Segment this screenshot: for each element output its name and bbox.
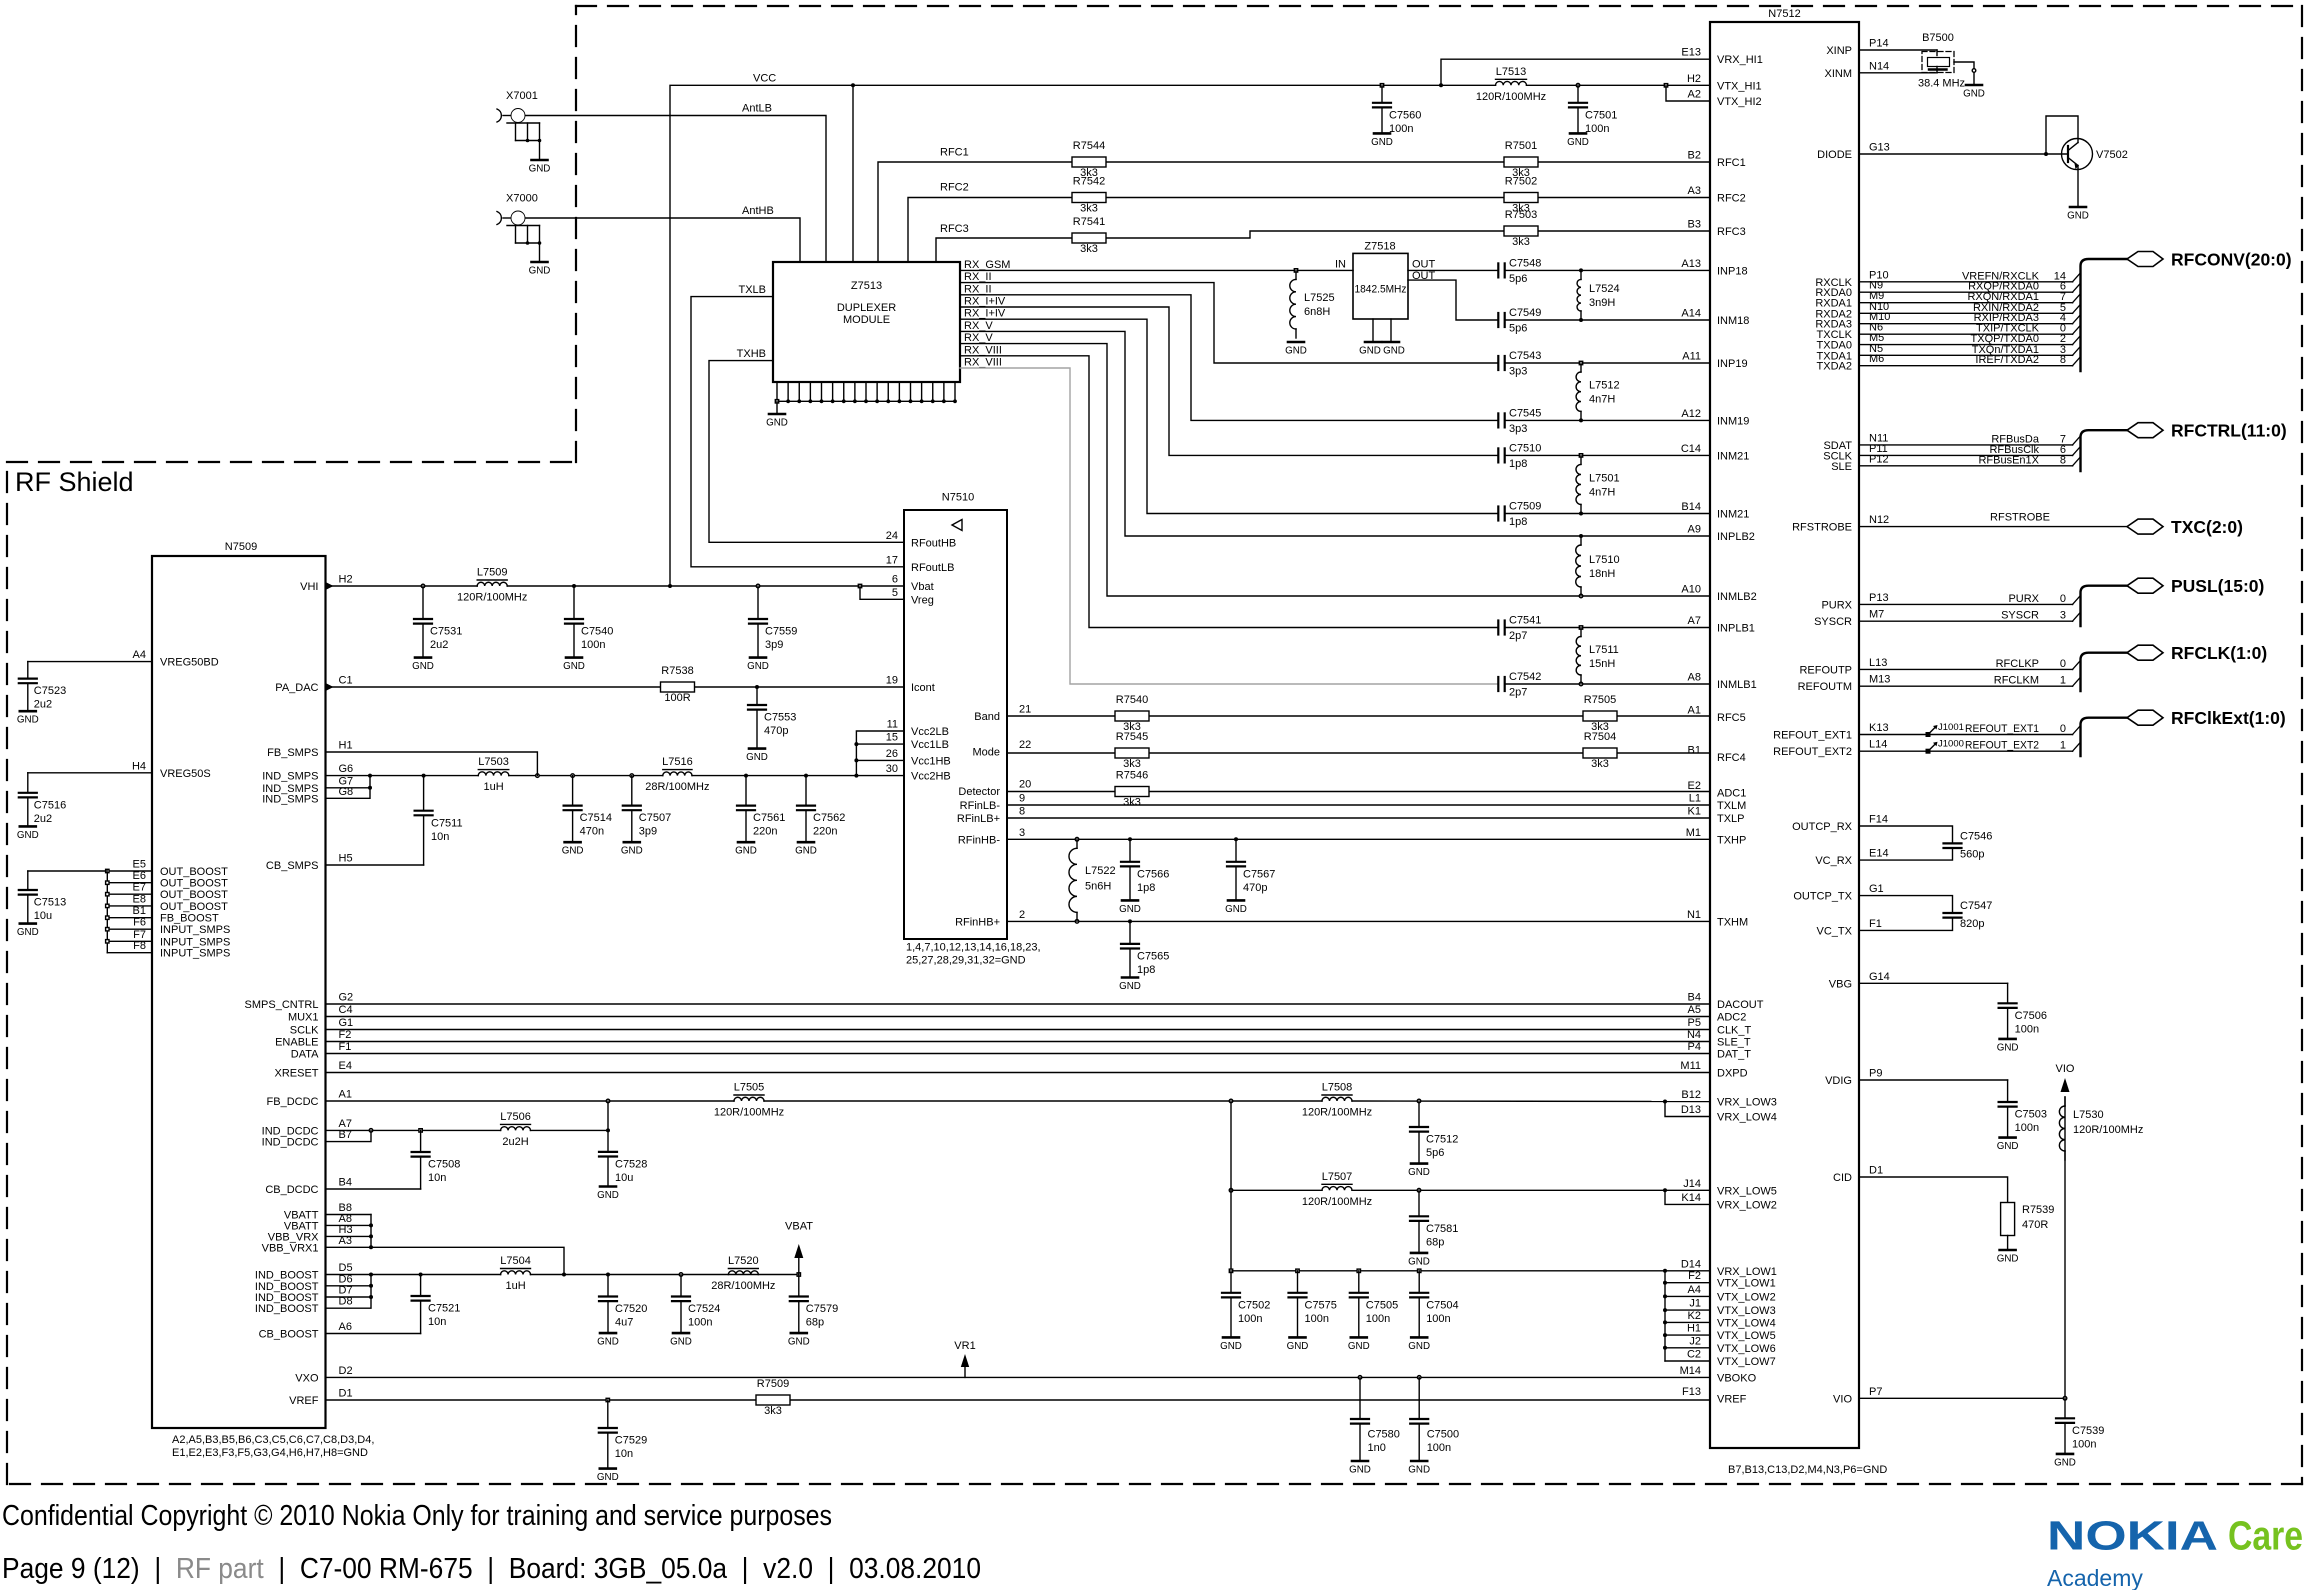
svg-text:L7504: L7504 <box>500 1255 531 1267</box>
wire DATA DAT_T <box>326 1053 1711 1055</box>
svg-text:RX_VIII: RX_VIII <box>964 344 1002 356</box>
wire SCLK CLK_T <box>326 1029 1711 1031</box>
capacitor C7549 <box>1498 307 1710 335</box>
svg-text:1p8: 1p8 <box>1137 964 1155 976</box>
svg-text:R7539: R7539 <box>2022 1204 2054 1216</box>
svg-text:RFC1: RFC1 <box>1717 157 1746 169</box>
wire RX_VIII b grey <box>960 368 1498 684</box>
svg-text:C7543: C7543 <box>1509 350 1541 362</box>
svg-text:GND: GND <box>1225 904 1247 915</box>
svg-text:GND: GND <box>1567 137 1589 148</box>
svg-text:A3: A3 <box>1688 185 1701 197</box>
svg-text:J1000: J1000 <box>1938 739 1964 750</box>
svg-text:120R/100MHz: 120R/100MHz <box>457 592 527 604</box>
svg-text:E2: E2 <box>1688 780 1701 792</box>
svg-text:3k3: 3k3 <box>1512 236 1530 248</box>
wire Band <box>1007 715 1710 717</box>
svg-text:VREG50BD: VREG50BD <box>160 657 219 669</box>
svg-text:A8: A8 <box>1688 672 1701 684</box>
IC N7509 <box>152 541 326 1428</box>
svg-text:24: 24 <box>886 530 898 542</box>
capacitor C7502 <box>1220 1271 1270 1352</box>
wire VRX_LOW2 bracket <box>1665 1190 1710 1204</box>
svg-text:INPLB1: INPLB1 <box>1717 623 1755 635</box>
svg-text:VBG: VBG <box>1829 978 1852 990</box>
wire IND_DCDC B7 <box>326 1130 372 1141</box>
svg-text:RFCONV(20:0): RFCONV(20:0) <box>2171 250 2292 270</box>
svg-text:C7559: C7559 <box>765 626 797 638</box>
resistor R7504 <box>1583 731 1617 770</box>
svg-text:GND: GND <box>1408 1465 1430 1476</box>
resistor R7501 <box>1504 140 1538 179</box>
svg-text:RFC2: RFC2 <box>1717 193 1746 205</box>
svg-text:D14: D14 <box>1681 1258 1701 1270</box>
svg-text:100n: 100n <box>2015 1023 2039 1035</box>
ground for L7525 <box>1285 342 1307 357</box>
capacitor C7528 <box>597 1130 647 1201</box>
svg-text:1p8: 1p8 <box>1509 516 1527 528</box>
svg-text:GND: GND <box>795 846 817 857</box>
capacitor C7579 <box>788 1275 838 1348</box>
svg-text:H1: H1 <box>339 740 353 752</box>
svg-text:1uH: 1uH <box>483 781 503 793</box>
svg-text:10n: 10n <box>428 1316 446 1328</box>
svg-text:RFClkExt(1:0): RFClkExt(1:0) <box>2171 708 2286 728</box>
svg-text:K1: K1 <box>1688 806 1701 818</box>
svg-text:25,27,28,29,31,32=GND: 25,27,28,29,31,32=GND <box>906 955 1026 967</box>
svg-text:A2,A5,B3,B5,B6,C3,C5,C6,C7,C8,: A2,A5,B3,B5,B6,C3,C5,C6,C7,C8,D3,D4, <box>172 1434 374 1446</box>
svg-text:VIO: VIO <box>1833 1393 1852 1405</box>
svg-text:Detector: Detector <box>958 786 1000 798</box>
svg-text:VBOKO: VBOKO <box>1717 1372 1757 1384</box>
capacitor C7514 <box>562 776 612 857</box>
svg-text:100n: 100n <box>2072 1438 2096 1450</box>
svg-text:TXLB: TXLB <box>738 284 766 296</box>
svg-text:AntLB: AntLB <box>742 102 772 114</box>
IC N7510 <box>904 492 1007 940</box>
capacitor C7509 <box>1498 501 1710 529</box>
svg-text:REFOUTM: REFOUTM <box>1798 681 1852 693</box>
svg-text:15: 15 <box>886 732 898 744</box>
svg-text:E6: E6 <box>133 870 146 882</box>
svg-text:TXC(2:0): TXC(2:0) <box>2171 517 2243 537</box>
svg-text:VRX_LOW1: VRX_LOW1 <box>1717 1266 1777 1278</box>
svg-text:INP18: INP18 <box>1717 265 1748 277</box>
svg-text:470R: 470R <box>2022 1219 2048 1231</box>
svg-text:IND_DCDC: IND_DCDC <box>262 1125 319 1137</box>
svg-text:100n: 100n <box>1426 1313 1450 1325</box>
inductor L7522 <box>1069 839 1116 921</box>
svg-text:MUX1: MUX1 <box>288 1012 319 1024</box>
svg-text:VBB_VRX1: VBB_VRX1 <box>262 1242 319 1254</box>
svg-text:C7567: C7567 <box>1243 868 1275 880</box>
svg-text:C7500: C7500 <box>1427 1429 1459 1441</box>
capacitor C7559 <box>747 586 797 672</box>
svg-text:RX_II: RX_II <box>964 271 992 283</box>
duplexer RX pin labels <box>964 259 1010 369</box>
svg-text:REFOUT_EXT2: REFOUT_EXT2 <box>1965 740 2039 752</box>
svg-text:GND: GND <box>670 1337 692 1348</box>
ground for B7500 <box>1963 85 1985 100</box>
svg-text:0: 0 <box>2060 593 2066 605</box>
connector X7001 <box>497 90 541 160</box>
svg-text:IND_BOOST: IND_BOOST <box>255 1303 319 1315</box>
svg-text:C7506: C7506 <box>2015 1010 2047 1022</box>
svg-text:GND: GND <box>17 830 39 841</box>
resistor R7541 <box>1072 216 1106 255</box>
wire VHI Vbat rail <box>326 584 905 588</box>
svg-text:1p8: 1p8 <box>1509 458 1527 470</box>
svg-text:C7510: C7510 <box>1509 442 1541 454</box>
svg-text:A4: A4 <box>1688 1284 1701 1296</box>
wire VRX_LOW4 bracket <box>1665 1102 1710 1117</box>
wire RX_V a <box>960 331 1710 536</box>
capacitor C7561 <box>735 776 785 857</box>
svg-text:3p9: 3p9 <box>765 639 783 651</box>
svg-text:R7542: R7542 <box>1073 176 1105 188</box>
svg-text:C7546: C7546 <box>1960 830 1992 842</box>
svg-text:VTX_LOW3: VTX_LOW3 <box>1717 1305 1776 1317</box>
svg-text:8: 8 <box>2060 354 2066 366</box>
svg-text:GND: GND <box>735 846 757 857</box>
svg-text:30: 30 <box>886 763 898 775</box>
svg-text:2p7: 2p7 <box>1509 630 1527 642</box>
wire RFinHB+ TXHM <box>1007 919 1710 923</box>
svg-text:GND: GND <box>529 266 551 277</box>
svg-text:VBAT: VBAT <box>785 1221 813 1233</box>
svg-text:RFC4: RFC4 <box>1717 752 1746 764</box>
svg-text:DXPD: DXPD <box>1717 1068 1748 1080</box>
svg-text:IND_BOOST: IND_BOOST <box>255 1270 319 1282</box>
svg-text:FB_BOOST: FB_BOOST <box>160 913 219 925</box>
svg-text:VTX_LOW6: VTX_LOW6 <box>1717 1343 1776 1355</box>
wire VIO pin P7 <box>1859 1397 2067 1401</box>
svg-text:VR1: VR1 <box>954 1340 975 1352</box>
svg-text:B7,B13,C13,D2,M4,N3,P6=GND: B7,B13,C13,D2,M4,N3,P6=GND <box>1728 1464 1887 1476</box>
capacitor C7580 <box>1351 1377 1400 1460</box>
svg-text:GND: GND <box>747 661 769 672</box>
capacitor C7511 <box>415 776 463 865</box>
svg-text:P14: P14 <box>1869 38 1889 50</box>
svg-text:L7524: L7524 <box>1589 283 1620 295</box>
svg-text:GND: GND <box>17 927 39 938</box>
svg-text:VTX_LOW1: VTX_LOW1 <box>1717 1278 1776 1290</box>
wire SMPS_CNTRL DACOUT <box>326 1003 1711 1005</box>
inductor L7506 <box>500 1111 531 1148</box>
svg-text:C7566: C7566 <box>1137 868 1169 880</box>
svg-text:6: 6 <box>892 574 898 586</box>
svg-text:IND_BOOST: IND_BOOST <box>255 1281 319 1293</box>
svg-text:GND: GND <box>597 1472 619 1483</box>
footer copyright text <box>2 1500 832 1532</box>
svg-text:10n: 10n <box>431 831 449 843</box>
svg-text:120R/100MHz: 120R/100MHz <box>2073 1124 2143 1136</box>
svg-text:Vcc1LB: Vcc1LB <box>911 739 949 751</box>
svg-text:L7513: L7513 <box>1496 66 1527 78</box>
svg-text:C7512: C7512 <box>1426 1134 1458 1146</box>
capacitor C7503 <box>1859 1080 2047 1152</box>
svg-text:C7560: C7560 <box>1389 109 1421 121</box>
svg-text:C7579: C7579 <box>806 1303 838 1315</box>
svg-text:P9: P9 <box>1869 1068 1882 1080</box>
inductor L7525 <box>1290 269 1335 338</box>
svg-text:GND: GND <box>621 846 643 857</box>
svg-text:D1: D1 <box>1869 1165 1883 1177</box>
svg-text:C7507: C7507 <box>639 812 671 824</box>
inductor L7516 <box>645 756 709 793</box>
svg-text:GND: GND <box>2054 1457 2076 1468</box>
wire RFC1 <box>878 147 1710 263</box>
svg-text:C7524: C7524 <box>688 1303 720 1315</box>
svg-text:2: 2 <box>1019 909 1025 921</box>
svg-text:D13: D13 <box>1681 1104 1701 1116</box>
svg-text:DAT_T: DAT_T <box>1717 1049 1751 1061</box>
svg-text:A10: A10 <box>1681 584 1701 596</box>
svg-text:A6: A6 <box>339 1321 352 1333</box>
svg-text:P4: P4 <box>1688 1041 1701 1053</box>
svg-text:RX_I+IV: RX_I+IV <box>964 296 1006 308</box>
svg-text:L7525: L7525 <box>1304 292 1335 304</box>
svg-text:B4: B4 <box>1688 992 1701 1004</box>
svg-text:A9: A9 <box>1688 524 1701 536</box>
svg-text:PA_DAC: PA_DAC <box>275 682 318 694</box>
svg-text:AntHB: AntHB <box>742 205 774 217</box>
svg-text:C7565: C7565 <box>1137 951 1169 963</box>
svg-text:C7509: C7509 <box>1509 501 1541 513</box>
svg-text:RFC1: RFC1 <box>940 147 969 159</box>
svg-text:Vbat: Vbat <box>911 581 934 593</box>
svg-text:120R/100MHz: 120R/100MHz <box>1302 1107 1372 1119</box>
svg-text:RX_I+IV: RX_I+IV <box>964 308 1006 320</box>
svg-text:C7528: C7528 <box>615 1159 647 1171</box>
power flag VBAT <box>785 1221 813 1275</box>
svg-text:CB_SMPS: CB_SMPS <box>266 860 319 872</box>
svg-text:L1: L1 <box>1689 793 1701 805</box>
svg-text:GND: GND <box>1408 1167 1430 1178</box>
svg-text:100n: 100n <box>581 639 605 651</box>
wire ENABLE SLE_T <box>326 1041 1711 1043</box>
svg-text:XRESET: XRESET <box>274 1068 318 1080</box>
svg-text:RFBusEn1X: RFBusEn1X <box>1978 454 2039 466</box>
svg-text:VCC: VCC <box>753 73 776 85</box>
power flag VR1 <box>954 1340 975 1377</box>
svg-text:C7542: C7542 <box>1509 671 1541 683</box>
ground for R7539 <box>1997 1250 2019 1265</box>
svg-text:3n9H: 3n9H <box>1589 297 1615 309</box>
svg-text:Z7513: Z7513 <box>851 280 882 292</box>
svg-text:IND_SMPS: IND_SMPS <box>262 793 318 805</box>
connector X7000 <box>497 193 541 263</box>
svg-text:GND: GND <box>17 715 39 726</box>
wire MUX1 ADC2 <box>326 1016 1711 1018</box>
svg-text:C2: C2 <box>1687 1349 1701 1361</box>
svg-text:C7521: C7521 <box>428 1303 460 1315</box>
wire Mode <box>1007 752 1710 754</box>
svg-text:470p: 470p <box>764 725 788 737</box>
svg-text:Page 9 (12) | RF part | C7: Page 9 (12) | RF part | C7-00 RM-675 | B… <box>2 1553 981 1585</box>
svg-text:B1: B1 <box>133 905 146 917</box>
svg-text:10u: 10u <box>615 1172 633 1184</box>
wire IND_BOOST D6 D7 D8 <box>326 1275 374 1309</box>
svg-text:C7580: C7580 <box>1368 1429 1400 1441</box>
RF Shield label <box>15 467 134 497</box>
svg-text:15nH: 15nH <box>1589 658 1615 670</box>
svg-text:INPUT_SMPS: INPUT_SMPS <box>160 948 230 960</box>
svg-text:F13: F13 <box>1682 1386 1701 1398</box>
svg-text:IND_BOOST: IND_BOOST <box>255 1292 319 1304</box>
wire RFinHB- TXHP <box>1007 837 1710 841</box>
svg-text:TXLP: TXLP <box>1717 813 1745 825</box>
bus RFCLK wires <box>1859 658 2081 687</box>
N7509 left pin labels <box>132 649 230 960</box>
svg-text:R7538: R7538 <box>661 665 693 677</box>
wire Vcc pins bracket <box>854 731 904 776</box>
resistor R7544 <box>1072 140 1106 179</box>
svg-text:INPUT_SMPS: INPUT_SMPS <box>160 936 230 948</box>
svg-text:B3: B3 <box>1688 219 1701 231</box>
svg-text:L13: L13 <box>1869 657 1887 669</box>
svg-text:L7503: L7503 <box>478 756 509 768</box>
svg-text:RFSTROBE: RFSTROBE <box>1792 522 1852 534</box>
bus RFCTRL <box>2081 421 2287 471</box>
capacitor C7566 <box>1119 839 1169 915</box>
svg-text:GND: GND <box>1408 1256 1430 1267</box>
ground for C7580 <box>1349 1461 1371 1476</box>
svg-text:L7506: L7506 <box>500 1111 531 1123</box>
svg-text:OUT: OUT <box>1412 258 1436 270</box>
svg-text:TXHP: TXHP <box>1717 834 1746 846</box>
N7512 left pin labels <box>1680 47 1777 1406</box>
svg-text:DUPLEXER: DUPLEXER <box>837 302 896 314</box>
svg-text:5p6: 5p6 <box>1509 273 1527 285</box>
resistor R7542 <box>1072 176 1106 215</box>
svg-text:10n: 10n <box>428 1172 446 1184</box>
footer page info <box>2 1553 981 1585</box>
svg-text:INMLB1: INMLB1 <box>1717 679 1757 691</box>
inductor L7505 <box>714 1082 784 1119</box>
svg-text:Z7518: Z7518 <box>1364 241 1395 253</box>
resistor R7502 <box>1504 176 1538 215</box>
svg-text:R7501: R7501 <box>1505 140 1537 152</box>
svg-text:C7541: C7541 <box>1509 615 1541 627</box>
svg-text:3k3: 3k3 <box>1123 797 1141 809</box>
wire Detector ADC1 <box>1007 791 1710 793</box>
svg-text:E13: E13 <box>1681 47 1701 59</box>
svg-text:INM19: INM19 <box>1717 415 1749 427</box>
svg-text:RX_V: RX_V <box>964 332 993 344</box>
svg-text:G13: G13 <box>1869 142 1890 154</box>
svg-text:M11: M11 <box>1680 1060 1701 1072</box>
svg-text:Academy: Academy <box>2047 1565 2143 1590</box>
svg-text:J1: J1 <box>1689 1298 1701 1310</box>
svg-text:N7510: N7510 <box>942 492 974 504</box>
N7510 left pin labels <box>886 530 957 783</box>
wire CB_SMPS <box>326 864 424 866</box>
crystal B7500 <box>1859 32 1976 90</box>
wire RX_I+IV b <box>960 319 1498 513</box>
N7512 gnd note <box>1728 1464 1887 1476</box>
svg-text:A7: A7 <box>339 1118 352 1130</box>
svg-text:RFCTRL(11:0): RFCTRL(11:0) <box>2171 421 2287 441</box>
svg-text:GND: GND <box>1371 137 1393 148</box>
svg-text:C7529: C7529 <box>615 1435 647 1447</box>
capacitor C7508 <box>412 1130 461 1189</box>
power flag VIO <box>2056 1063 2075 1398</box>
svg-text:0: 0 <box>2060 723 2066 735</box>
svg-text:B12: B12 <box>1681 1089 1701 1101</box>
svg-text:GND: GND <box>1220 1341 1242 1352</box>
capacitor C7565 <box>1119 921 1169 992</box>
svg-text:100n: 100n <box>688 1317 712 1329</box>
svg-text:L7511: L7511 <box>1589 644 1619 656</box>
ground for Z7518 pin1 <box>1359 342 1381 357</box>
svg-text:2u2: 2u2 <box>34 813 52 825</box>
svg-text:220n: 220n <box>753 826 777 838</box>
inductor L7524 <box>1577 268 1620 322</box>
svg-text:C7502: C7502 <box>1238 1299 1270 1311</box>
bus RFCLK <box>2081 643 2268 691</box>
svg-text:D5: D5 <box>339 1262 353 1274</box>
wire RX_II b <box>960 295 1498 421</box>
svg-text:RX_II: RX_II <box>964 283 992 295</box>
svg-text:L7522: L7522 <box>1085 865 1116 877</box>
capacitor C7546 <box>1859 826 1992 861</box>
capacitor C7542 <box>1498 671 1710 699</box>
svg-text:L7501: L7501 <box>1589 472 1620 484</box>
svg-text:560p: 560p <box>1960 849 1984 861</box>
svg-text:GND: GND <box>1963 89 1985 100</box>
inductor L7530 <box>2059 1097 2143 1160</box>
svg-text:GND: GND <box>788 1337 810 1348</box>
svg-text:IREF/TXDA2: IREF/TXDA2 <box>1975 354 2039 366</box>
svg-text:VRX_LOW3: VRX_LOW3 <box>1717 1097 1777 1109</box>
capacitor C7520 <box>597 1275 647 1348</box>
bus RFCONV <box>2081 250 2292 372</box>
svg-text:GND: GND <box>597 1190 619 1201</box>
wire VXO VBOKO <box>326 1376 1711 1380</box>
svg-text:GND: GND <box>412 661 434 672</box>
svg-text:C7539: C7539 <box>2072 1425 2104 1437</box>
capacitor C7539 <box>2054 1398 2104 1468</box>
resistor R7505 <box>1583 694 1617 733</box>
capacitor C7581 <box>1408 1189 1458 1268</box>
svg-text:GND: GND <box>1997 1042 2019 1053</box>
svg-text:A5: A5 <box>1688 1004 1701 1016</box>
svg-text:CB_DCDC: CB_DCDC <box>265 1184 318 1196</box>
wire RX_V b <box>960 344 1710 596</box>
capacitor C7543 <box>1498 350 1710 378</box>
svg-text:M13: M13 <box>1869 674 1890 686</box>
svg-text:1: 1 <box>2060 675 2066 687</box>
svg-text:C7508: C7508 <box>428 1159 460 1171</box>
svg-text:C7548: C7548 <box>1509 257 1541 269</box>
svg-text:TXHM: TXHM <box>1717 916 1748 928</box>
svg-text:K13: K13 <box>1869 722 1889 734</box>
svg-text:V7502: V7502 <box>2096 149 2128 161</box>
svg-text:2u2H: 2u2H <box>502 1136 528 1148</box>
svg-text:SCLK: SCLK <box>290 1025 319 1037</box>
svg-text:F2: F2 <box>339 1029 352 1041</box>
svg-text:R7502: R7502 <box>1505 176 1537 188</box>
svg-text:R7503: R7503 <box>1505 209 1537 221</box>
svg-text:L14: L14 <box>1869 739 1887 751</box>
svg-text:FB_SMPS: FB_SMPS <box>267 747 318 759</box>
svg-text:3: 3 <box>2060 610 2066 622</box>
svg-text:R7505: R7505 <box>1584 694 1616 706</box>
svg-text:XINM: XINM <box>1825 68 1853 80</box>
resistor R7539 <box>1859 1177 2054 1249</box>
svg-text:G1: G1 <box>1869 883 1884 895</box>
